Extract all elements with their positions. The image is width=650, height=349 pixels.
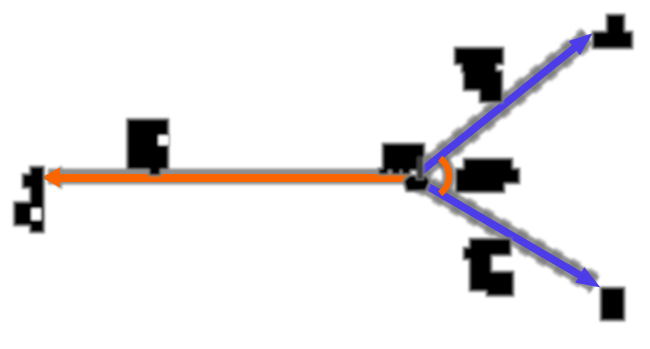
tension T1 arrow (up-right, blue) bbox=[421, 33, 593, 172]
label B (bottom right) bbox=[601, 288, 624, 320]
label T2 (lower tension) bbox=[464, 239, 513, 296]
knot node at vertex bbox=[404, 176, 430, 192]
angle arc (orange) bbox=[440, 158, 449, 193]
label F (above orange arrow) bbox=[128, 120, 169, 176]
label d (left arrow tip) bbox=[15, 167, 44, 232]
label 60 deg (angle value) bbox=[456, 159, 519, 192]
label A (top right) bbox=[593, 15, 632, 48]
force F arrow (left, orange) bbox=[42, 168, 410, 188]
label T1 (upper tension) bbox=[455, 48, 503, 102]
tension T2 arrow (down-right, blue) bbox=[422, 183, 601, 288]
wire halo: horizontal force arrow halo bbox=[44, 158, 449, 193]
label m (above knot) bbox=[379, 144, 424, 179]
